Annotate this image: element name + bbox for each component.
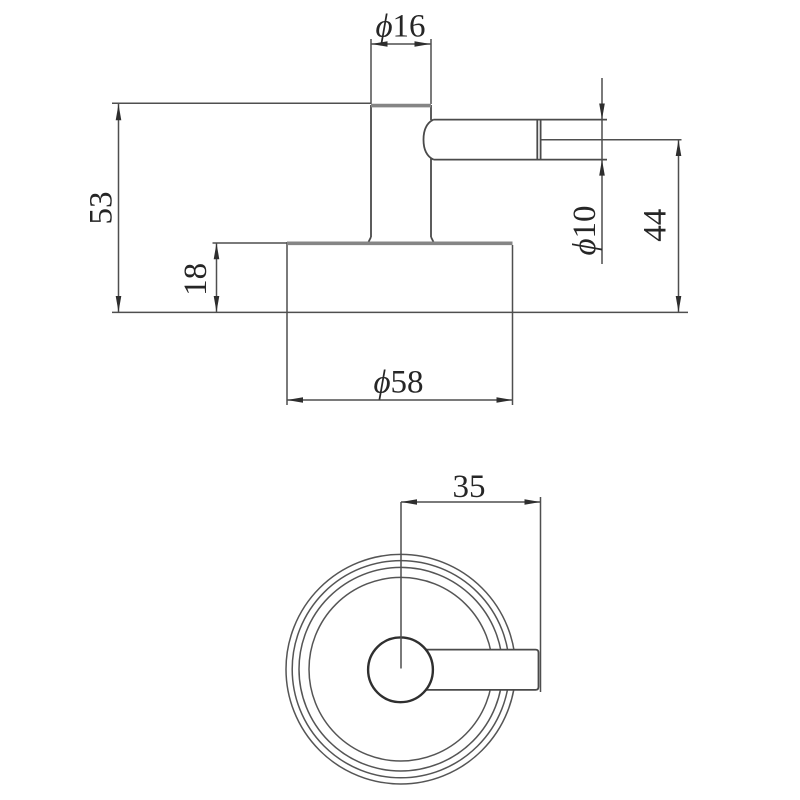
svg-text:18: 18 [178, 263, 214, 296]
svg-text:ϕ58: ϕ58 [373, 364, 423, 400]
svg-text:ϕ16: ϕ16 [375, 8, 425, 44]
svg-text:53: 53 [84, 192, 120, 225]
svg-text:ϕ10: ϕ10 [567, 205, 603, 255]
svg-text:44: 44 [637, 209, 673, 242]
svg-text:35: 35 [453, 469, 486, 505]
